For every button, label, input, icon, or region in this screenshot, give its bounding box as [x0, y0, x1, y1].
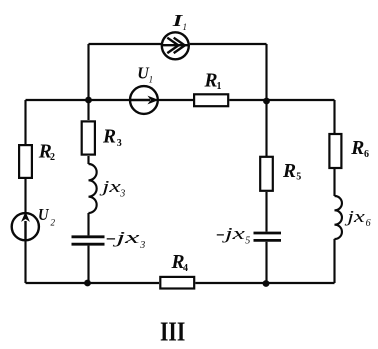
label U1	[137, 63, 153, 84]
svg-text:R: R	[350, 137, 364, 159]
capacitor -jx5	[254, 233, 282, 240]
svg-text:III: III	[160, 317, 185, 347]
label R4	[171, 251, 188, 274]
junction node D (bottom right)	[263, 280, 270, 287]
label I1	[171, 11, 187, 32]
wire right-top vertical down to node B	[265, 44, 267, 100]
wire right rail down to R6	[333, 100, 335, 133]
svg-text:1: 1	[149, 75, 154, 85]
label R1	[204, 69, 222, 92]
voltage source U1	[130, 86, 158, 114]
current source I1	[162, 32, 189, 59]
label U2	[38, 205, 56, 228]
svg-text:3: 3	[119, 189, 125, 200]
wire top left segment to I1	[89, 43, 162, 45]
junction node C (bottom left)	[84, 280, 91, 287]
svg-text:R: R	[282, 160, 296, 182]
bottom wire left segment	[26, 282, 160, 284]
wire jx3 to capacitor	[87, 213, 89, 235]
svg-text:2: 2	[50, 152, 55, 163]
resistor R4	[160, 277, 194, 289]
svg-text:U: U	[137, 63, 149, 82]
label R6	[350, 137, 369, 160]
svg-text:-jx: -jx	[216, 224, 246, 243]
resistor R3	[82, 121, 95, 154]
inductor jx3	[89, 164, 97, 213]
wire mid row right segment	[229, 99, 334, 101]
svg-text:1: 1	[217, 81, 222, 92]
svg-text:U: U	[38, 205, 49, 224]
wire capacitor -jx5 to bottom	[265, 242, 267, 283]
svg-text:3: 3	[139, 240, 145, 251]
wire R3 to inductor jx3	[87, 156, 89, 164]
svg-text:R: R	[204, 69, 218, 91]
label jx3	[99, 177, 125, 200]
wire R6 to inductor jx6	[333, 169, 335, 196]
wire U2 to bottom	[24, 241, 26, 284]
junction node A	[85, 97, 92, 104]
wire left rail top corner down to R2	[24, 100, 26, 144]
junction node B	[263, 98, 270, 105]
inductor jx6	[335, 196, 342, 239]
label R2	[38, 140, 55, 163]
svg-text:5: 5	[296, 172, 301, 183]
label -jx5	[216, 224, 251, 247]
wire top-left vertical (node A up to top wire)	[87, 44, 89, 100]
resistor R2	[19, 145, 32, 178]
bottom wire right segment	[195, 282, 334, 284]
svg-text:jx: jx	[99, 177, 121, 196]
svg-text:3: 3	[117, 138, 122, 149]
svg-text:-jx: -jx	[106, 228, 141, 247]
svg-text:2: 2	[51, 218, 56, 228]
label jx6	[344, 207, 370, 229]
wire mid row left segment	[26, 99, 130, 101]
resistor R6	[329, 134, 341, 168]
wire capacitor -jx3 to bottom	[87, 246, 89, 283]
svg-text:R: R	[102, 125, 116, 147]
wire mid row between U1 and R1	[158, 99, 193, 101]
capacitor -jx3	[72, 237, 105, 244]
voltage source U2	[12, 213, 39, 241]
wire top right segment	[190, 43, 267, 45]
svg-text:jx: jx	[344, 207, 365, 226]
resistor R5	[260, 157, 273, 191]
wire R2 to U2	[24, 179, 26, 213]
wire jx6 to bottom	[333, 239, 335, 283]
wire node B down to R5	[265, 101, 267, 156]
wire node A down to R3	[87, 100, 89, 120]
svg-text:6: 6	[366, 218, 371, 229]
resistor R1	[194, 94, 228, 106]
svg-text:4: 4	[183, 263, 188, 274]
wire R5 to capacitor -jx5	[265, 192, 267, 232]
svg-text:1: 1	[183, 22, 188, 32]
label -jx3	[106, 228, 146, 251]
label R5	[282, 160, 301, 183]
svg-text:5: 5	[245, 236, 250, 247]
svg-text:6: 6	[364, 149, 369, 160]
label R3	[102, 125, 122, 149]
